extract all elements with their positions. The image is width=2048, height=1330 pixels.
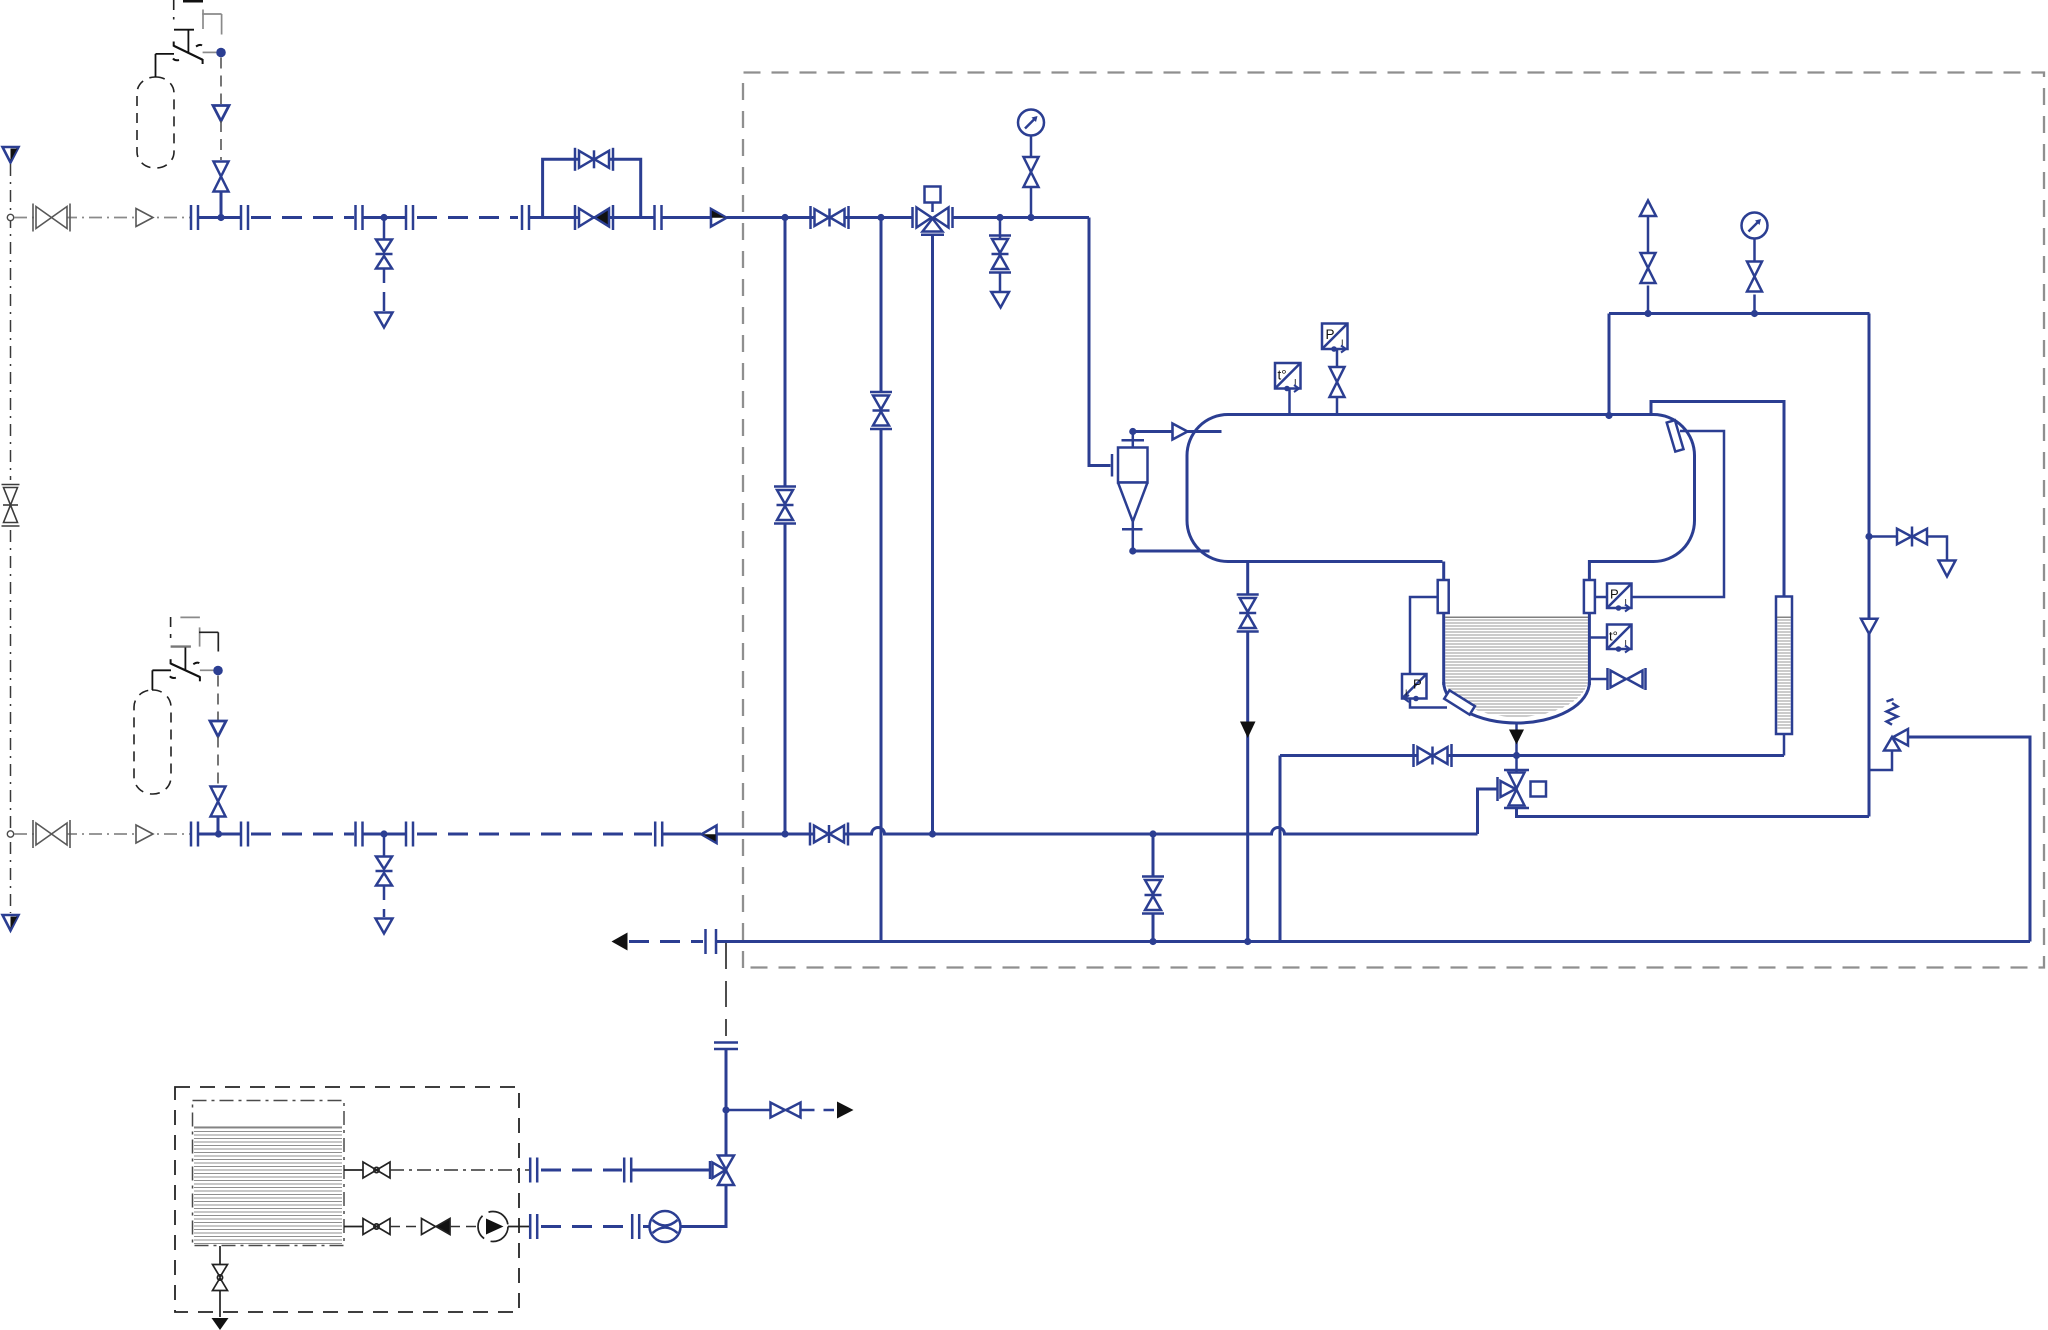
blowdown break	[704, 929, 707, 954]
takeoff dot 1	[216, 48, 226, 58]
discharge break right	[632, 1214, 639, 1239]
skid upper dash-dot to break	[390, 1169, 529, 1171]
skid three-way valve	[710, 1156, 734, 1186]
riser x=785	[784, 218, 787, 835]
cyclone bottom flange	[1122, 528, 1143, 531]
valve on riser 785	[773, 486, 797, 524]
skid pump tail	[508, 1226, 529, 1228]
three-way bottom port to equalizing line	[1517, 808, 1870, 817]
return solid run at node 218.5	[198, 833, 241, 836]
drain branch at 1000: stem	[999, 218, 1002, 239]
feed stack 1 valve	[214, 162, 229, 192]
vent header	[1609, 312, 1870, 315]
header corner to bottom line	[1279, 756, 1282, 942]
boot drain header line	[1280, 754, 1784, 757]
header node vent	[1644, 310, 1651, 317]
line1 solid 952-1089	[953, 216, 1090, 219]
gray valve line 2	[33, 820, 70, 848]
drain valve at 1000	[989, 236, 1011, 273]
vessel right cap nozzle (tilted)	[1667, 420, 1684, 451]
return dashed 249-355	[251, 833, 354, 836]
vapor inlet line tail inside vessel	[1193, 430, 1222, 433]
line1 dashed run 249-355	[251, 216, 354, 219]
line1 solid run at node 384	[363, 216, 406, 219]
black dashed connector from blowdown line	[725, 943, 727, 1036]
pressure gauge PI-1	[1018, 110, 1044, 136]
gray supply stub line 2	[14, 833, 190, 835]
cyclone vapor line to vessel	[1133, 430, 1222, 433]
cyclone cone	[1118, 483, 1148, 522]
main check valve	[575, 205, 613, 230]
sample branch arrow (filled)	[837, 1102, 854, 1119]
flow meter	[650, 1211, 681, 1242]
cyclone top flange	[1122, 439, 1145, 442]
svg-text:P: P	[1610, 587, 1619, 602]
line1 corner drop to cyclone	[1089, 218, 1111, 466]
line1 node 1000	[996, 214, 1003, 221]
return node 1153	[1149, 830, 1156, 837]
skid check valve (black)	[422, 1219, 451, 1235]
return break left	[191, 822, 198, 847]
boot drain drop w/ arrow	[1515, 724, 1518, 756]
gray isolation valve on left header (vertical)	[2, 485, 20, 527]
bypass valve	[575, 148, 613, 171]
cyclone body	[1118, 448, 1148, 483]
vessel drain riser x=1247.7	[1246, 561, 1249, 942]
svg-text:t°: t°	[1609, 629, 1618, 644]
vessel shell	[1187, 415, 1695, 562]
sample branch valve	[771, 1103, 801, 1118]
boot left level pocket	[1438, 580, 1449, 613]
line1 node 221	[217, 214, 224, 221]
continuation marker bottom-left (half-filled triangle down)	[3, 915, 19, 931]
valve on riser 881	[869, 392, 893, 430]
drain branch triangle line1	[376, 313, 393, 328]
skid suction line solid	[631, 1169, 711, 1172]
boot liquid hatch	[1445, 617, 1588, 719]
gauge stem upper	[1030, 136, 1033, 158]
gray flow arrow line 1	[136, 209, 153, 227]
sample branch dash	[801, 1109, 835, 1112]
purge drain triangle	[1939, 561, 1956, 577]
vessel bottom opening (boot gap)	[1443, 559, 1591, 564]
feed stack 2 dashed drop 2	[217, 737, 219, 786]
relief valve inlet jog	[1869, 751, 1892, 771]
feed stack 2 flow triangle	[210, 721, 226, 737]
skid three-way bottom elbow	[681, 1185, 726, 1227]
right pocket to P transmitter	[1595, 596, 1607, 599]
svg-text:P: P	[1326, 327, 1335, 342]
line1 solid run 529-655	[529, 216, 654, 219]
return break right	[241, 822, 248, 847]
t-instrument box on vessel top	[1275, 363, 1301, 392]
return break 658	[655, 822, 662, 847]
line1 solid run at node 221	[198, 216, 241, 219]
boot P transmitter box	[1607, 584, 1632, 612]
left header dash-dot vertical line	[10, 164, 12, 480]
dP lower tap to sparger	[1410, 699, 1447, 708]
equalizer drop x=1153	[1152, 834, 1155, 942]
vent stack arrow up	[1640, 201, 1656, 217]
flow arrow on equalizing riser	[1861, 619, 1877, 634]
three-way left port to return riser	[1478, 789, 1498, 834]
boot right wall	[1588, 560, 1591, 685]
line1 break left of node 384	[356, 205, 363, 230]
blowdown dashes	[629, 940, 703, 943]
line1 break right of node 384	[406, 205, 413, 230]
relief valve PSV	[1884, 699, 1908, 751]
gauge valve at 1031	[1024, 157, 1039, 187]
feed stack 2: dashed drop	[217, 676, 219, 721]
skid upper outlet line	[344, 1169, 363, 1171]
cyclone bottom stem	[1132, 522, 1135, 552]
line1 solid 662-711	[662, 216, 712, 219]
return node 384	[380, 830, 387, 837]
svg-text:P: P	[1413, 677, 1422, 692]
vessel drain flow arrow (filled)	[1240, 722, 1256, 739]
blowdown arrow out (filled, left)	[612, 933, 628, 951]
header node gauge	[1751, 310, 1758, 317]
continuation marker top-left (half-filled triangle down)	[3, 147, 19, 163]
gray valve line 1	[33, 204, 70, 232]
gray supply stub line 1	[14, 217, 190, 219]
cylinder 2 dashed outline	[134, 690, 171, 794]
regulator 1 black piping	[156, 0, 222, 77]
relief discharge line	[1908, 737, 2030, 942]
feed stack 1 dashed drop 2	[220, 121, 222, 160]
return node 785	[781, 830, 788, 837]
return drain branch at 384: stem	[383, 834, 386, 857]
cyclone solids return line	[1133, 550, 1210, 553]
cyclone inlet flange	[1111, 454, 1114, 477]
suction dashed	[541, 1169, 622, 1172]
line1 node 1031	[1027, 214, 1034, 221]
level gauge hatch	[1778, 620, 1791, 728]
drain header valve	[1414, 744, 1452, 767]
P-instrument stem + valve on vessel top	[1336, 349, 1339, 367]
discharge line solid	[643, 1225, 650, 1228]
vessel drain valve	[1235, 594, 1260, 632]
line1 node 881	[877, 214, 884, 221]
skid hatch top line	[194, 1126, 342, 1128]
P-instrument box on vessel top	[1322, 324, 1348, 353]
discharge dashed	[541, 1225, 630, 1228]
line1 break pair left of node 221	[191, 205, 198, 230]
line1 break 525	[522, 205, 529, 230]
node circle at line 1 takeoff	[7, 214, 13, 220]
boot sample stub line	[1589, 678, 1607, 681]
skid lower dash	[390, 1226, 420, 1228]
bypass loop around check valve	[543, 159, 641, 217]
takeoff dot 2	[213, 666, 223, 676]
battery limit box	[743, 73, 2044, 969]
valve on drop 1153	[1141, 877, 1165, 914]
gray flow arrow line 2	[136, 825, 153, 843]
cyclone top stem	[1132, 432, 1135, 448]
line1 solid 726-912	[727, 216, 914, 219]
node dot above cyclone	[1129, 428, 1136, 435]
feed flow arrow (half filled)	[711, 209, 727, 227]
feed stack 1 tail	[220, 192, 223, 218]
boot left wall	[1442, 562, 1445, 686]
level gauge bottom stem	[1783, 734, 1786, 756]
solids return tail to cap	[1200, 550, 1210, 553]
return solid 716-872 with hop at 878	[717, 828, 1478, 835]
node on vessel top	[1605, 412, 1612, 419]
equalizing riser	[1868, 314, 1871, 817]
line1 isolation valve 841	[811, 206, 849, 229]
skid drain arrow (filled)	[212, 1318, 229, 1330]
line1 break pair right of node 221	[241, 205, 248, 230]
blowdown node 1247.7	[1244, 938, 1251, 945]
regulator 2 black piping	[152, 617, 218, 690]
three-way control valve on line1	[913, 187, 953, 235]
skid drain tail	[219, 1291, 221, 1318]
line1 node 384	[380, 214, 387, 221]
skid outer dashed box	[175, 1087, 519, 1312]
node dot under cyclone	[1129, 547, 1136, 554]
drain triangle at 1000	[991, 292, 1009, 308]
skid upper valve (black)	[363, 1162, 390, 1178]
gauge stack 2 valve	[1753, 295, 1756, 314]
purge branch line	[1869, 535, 1897, 538]
skid pump (black circle + arrow)	[478, 1212, 508, 1242]
vessel top t-instrument stem	[1288, 389, 1291, 415]
riser x=932.5 (from 3-way)	[931, 236, 934, 834]
feed stack 2 valve	[211, 787, 226, 817]
return break left of 384	[356, 822, 363, 847]
line1 node 785	[781, 214, 788, 221]
connector lower run	[725, 1050, 728, 1155]
vent stack valve	[1647, 286, 1650, 314]
dP transmitter box (mirrored)	[1402, 674, 1427, 702]
node at sample branch	[722, 1106, 729, 1113]
break on connector	[714, 1041, 738, 1044]
boot right level pocket	[1584, 580, 1595, 613]
skid drain valve (black)	[213, 1265, 228, 1291]
return dashed 414-652	[417, 833, 652, 836]
return node 218.5	[215, 830, 222, 837]
node at purge branch	[1865, 533, 1872, 540]
boot bowl	[1444, 682, 1590, 723]
skid tank hatch	[194, 1128, 342, 1244]
feed stack 1 flow triangle	[213, 106, 229, 122]
suction break left	[530, 1158, 537, 1183]
skid lower valve (black)	[363, 1219, 390, 1235]
line1 dashed run 414-519	[417, 216, 518, 219]
purge branch elbow	[1927, 537, 1947, 561]
feed stack 2 tail	[217, 817, 220, 835]
boot tilted sparger nozzle	[1444, 690, 1475, 714]
return drain valve	[376, 857, 393, 886]
drain branch valve line1	[376, 240, 393, 269]
level gauge body	[1776, 597, 1792, 735]
cylinder 1 dashed outline	[137, 77, 174, 168]
riser x=881	[880, 218, 883, 942]
node on drain header	[1513, 752, 1520, 759]
vapor inlet arrow	[1173, 424, 1188, 440]
drain branch at node 384 line1: stem	[383, 218, 386, 240]
purge branch valve	[1897, 527, 1927, 547]
sample branch line	[726, 1109, 770, 1112]
skid tank outline (dash-dot)	[193, 1101, 345, 1246]
left pocket to dP transmitter	[1410, 597, 1438, 674]
return solid 662-701	[662, 833, 701, 836]
gauge branch at 1031: stem	[1030, 187, 1033, 218]
drain branch tail dashes line1	[383, 269, 386, 312]
return isolation valve 829	[810, 823, 848, 846]
return node 932.5	[929, 830, 936, 837]
return drain tail dashes	[383, 886, 386, 918]
boot t transmitter box	[1607, 625, 1632, 653]
skid lower outlet line	[344, 1226, 363, 1228]
vessel vent riser	[1608, 314, 1611, 416]
boot t transmitter stem	[1589, 636, 1607, 639]
return flow arrow (half filled, pointing left)	[702, 826, 717, 844]
level gauge feed line from vessel top right	[1651, 402, 1784, 597]
svg-text:t°: t°	[1278, 368, 1287, 383]
boot sample valve	[1608, 668, 1646, 690]
return drain triangle	[376, 919, 393, 934]
suction break right	[624, 1158, 631, 1183]
nozzle tap line to downcomer	[1632, 431, 1725, 597]
node circle at line 2 takeoff	[7, 831, 13, 837]
line1 break 658	[655, 205, 662, 230]
skid dash to pump	[450, 1226, 477, 1228]
return solid at node 384	[363, 833, 406, 836]
drain tail at 1000	[999, 273, 1002, 292]
level gauge hatch top line	[1777, 616, 1791, 618]
feed stack 1: dashed drop	[220, 58, 222, 105]
blowdown node 1153	[1149, 938, 1156, 945]
blowdown main run	[717, 940, 2030, 943]
skid tank bottom drain stem	[219, 1246, 221, 1264]
pressure gauge PI-2	[1742, 213, 1768, 239]
boot drain flow arrow (filled)	[1509, 730, 1524, 745]
discharge break left	[530, 1214, 537, 1239]
return break right of 384	[406, 822, 413, 847]
